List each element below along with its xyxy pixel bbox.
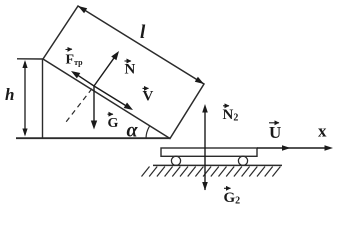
inclined board (rotated rectangle) (43, 6, 204, 139)
left wheel (171, 156, 180, 165)
normal force N vector (94, 55, 116, 86)
length dimension arrowhead at top corner (78, 6, 87, 13)
label F_tr (66, 48, 73, 50)
label N (125, 60, 132, 62)
normal force N2 vector (up) (204, 110, 206, 190)
gravity G2 vector (down) (202, 182, 208, 191)
length dimension arrowhead at right corner (195, 77, 204, 84)
h dimension double arrow (24, 62, 26, 135)
x axis arrowhead (325, 145, 334, 151)
ground line under cart (153, 164, 282, 166)
velocity V vector (down the incline) (94, 86, 127, 106)
svg-text:l: l (140, 22, 146, 43)
vertical side line (42, 59, 44, 138)
top horizontal ledge line (17, 58, 43, 60)
svg-text:V: V (143, 88, 154, 104)
angle alpha arc (146, 126, 150, 138)
svg-text:U: U (269, 123, 281, 142)
label N2 (223, 105, 229, 107)
cart platform (161, 148, 257, 156)
x axis line from platform (257, 147, 330, 149)
svg-text:N: N (125, 61, 136, 77)
base ground line under incline (16, 137, 170, 139)
label G (108, 113, 114, 115)
ground hatching (142, 167, 281, 177)
label G2 (224, 187, 231, 189)
gravity G vector (93, 86, 95, 122)
svg-text:G: G (108, 116, 119, 131)
svg-text:x: x (318, 122, 327, 141)
friction force F_tr vector (up the incline) (76, 74, 94, 86)
label U (269, 122, 279, 124)
right wheel (238, 156, 247, 165)
U arrowhead (282, 145, 291, 151)
svg-text:h: h (5, 85, 14, 104)
dashed normal extension line (66, 89, 92, 122)
label V (143, 87, 149, 89)
svg-text:α: α (127, 119, 139, 141)
